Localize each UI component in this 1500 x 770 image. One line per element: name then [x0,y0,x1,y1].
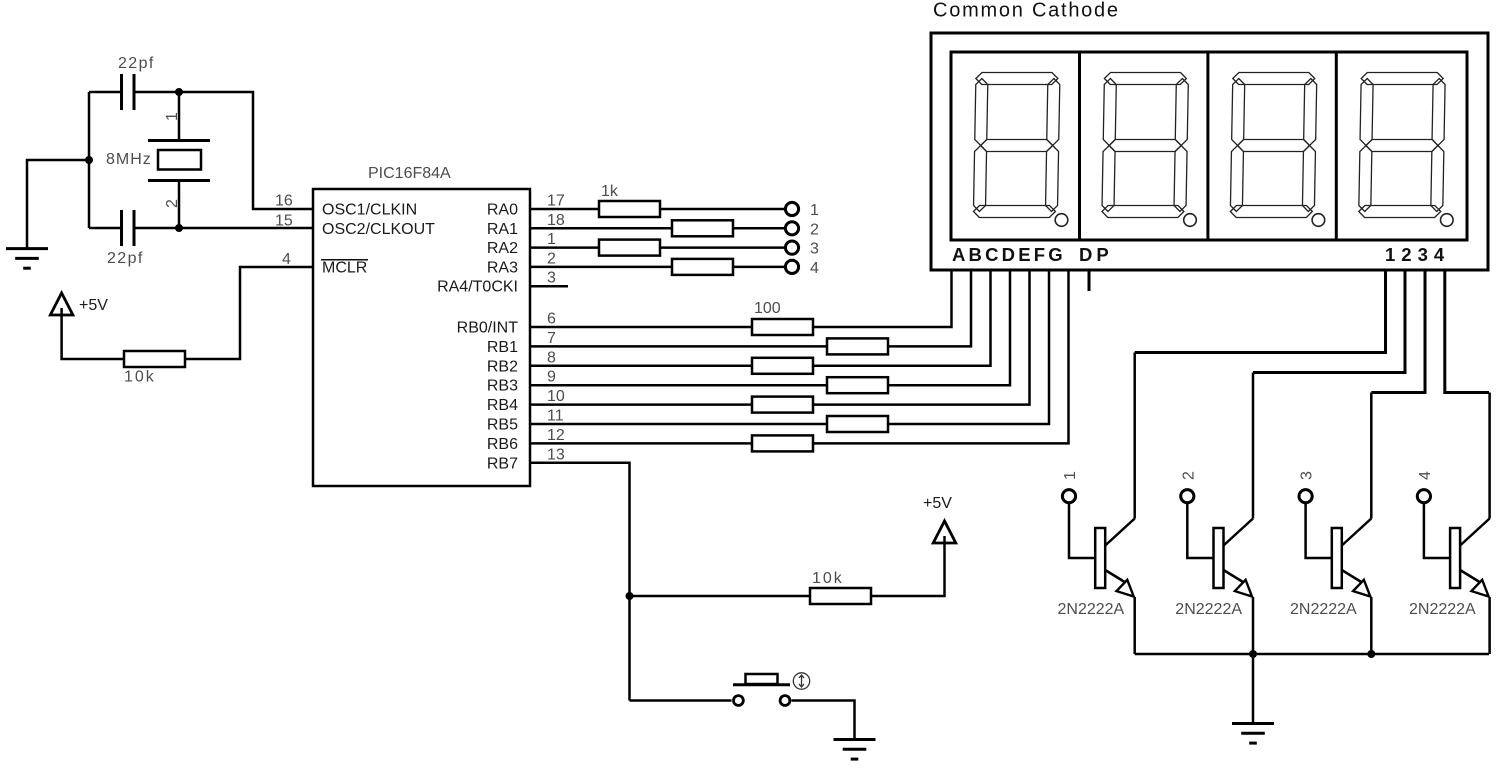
wire resistor RA2 to terminal [660,246,786,249]
svg-text:3: 3 [1299,471,1316,480]
svg-text:2N2222A: 2N2222A [1290,601,1357,618]
svg-text:10k: 10k [812,570,844,587]
wire emitter Q1 [1133,597,1136,654]
wire resistor RA1 to terminal [733,227,786,230]
wire rail to ground [1252,654,1255,722]
terminal 1 RA0 [785,202,798,215]
junction rail Q2 [1249,650,1257,658]
svg-text:7: 7 [547,330,556,347]
terminal 1 base input [1062,490,1075,503]
push button actuator icon [793,673,809,689]
wire display pin 2 to Q2 collector [1253,270,1405,373]
wire emitter Q4 [1488,597,1491,654]
svg-text:RA3: RA3 [487,259,518,276]
transistor Q2 2N2222A [1214,519,1254,597]
capacitor C2 22pf bottom [122,210,135,246]
resistor 100 RB2 [752,358,813,374]
display digit separator 3 [1335,52,1338,240]
svg-text:13: 13 [547,446,565,463]
wire R-mclr to PIC MCLR pin4 [185,267,313,359]
decimal point digit 4 [1441,214,1454,227]
wire resistor RA3 to terminal [733,266,786,269]
svg-text:+5V: +5V [923,495,952,512]
wire base Q2 [1187,503,1213,558]
resistor 10k RB7 pull-up [810,588,871,604]
svg-text:PIC16F84A: PIC16F84A [368,165,451,182]
svg-text:4: 4 [810,260,819,277]
display inner window [951,52,1467,240]
resistor 1k RA3 [672,259,733,275]
junction RB7 node [626,592,634,600]
wire display pin 4 to Q4 collector [1445,270,1489,393]
svg-text:RA0: RA0 [487,202,518,219]
display pin DP stub [1088,270,1091,291]
wire RB1 to resistor [530,345,827,348]
wire resistor RB6 to display pin G [813,270,1069,443]
decimal point digit 3 [1312,214,1325,227]
svg-text:RB1: RB1 [487,339,518,356]
svg-text:1234: 1234 [1385,244,1450,265]
7-segment digit 4 [1359,73,1446,218]
wire RB5 to resistor [530,423,827,426]
wire emitter Q3 [1370,597,1373,654]
svg-text:RB6: RB6 [487,436,518,453]
wire RB0 to resistor [530,326,752,329]
svg-text:RA2: RA2 [487,240,518,257]
push button switch S1 [733,674,790,705]
wire RA0 to resistor [530,208,599,211]
transistor Q1 2N2222A [1095,519,1135,597]
svg-text:3: 3 [810,241,819,258]
7-segment digit 1 [973,73,1060,218]
wire node to R 10k [630,595,811,598]
wire base Q4 [1424,503,1450,558]
wire +5V to R-mclr [62,308,124,359]
capacitor C1 22pf top [122,74,135,110]
svg-text:4: 4 [1417,471,1434,480]
wire resistor RB0 to display pin A [813,270,952,327]
svg-text:Common Cathode: Common Cathode [933,0,1120,22]
terminal 3 base input [1299,490,1312,503]
resistor 100 RB6 [752,435,813,451]
terminal 4 RA3 [785,260,798,273]
7-segment digit 3 [1230,73,1317,218]
wire C2 to node OSC2 [135,227,179,230]
resistor 100 RB3 [827,377,888,393]
svg-text:ABCDEFG: ABCDEFG [952,244,1066,265]
svg-text:DP: DP [1079,244,1113,265]
svg-text:2N2222A: 2N2222A [1175,601,1242,618]
ground button [834,740,876,760]
+5V supply right [933,521,956,543]
svg-text:RB3: RB3 [487,378,518,395]
wire RB7 down [530,463,630,701]
wire RA3 to resistor [530,266,672,269]
transistor Q3 2N2222A [1332,519,1372,597]
svg-text:RB5: RB5 [487,417,518,434]
wire emitter rail [1135,653,1489,656]
wire collector Q4 [1488,393,1491,519]
decimal point digit 1 [1055,214,1068,227]
svg-text:15: 15 [275,212,293,229]
svg-text:22pf: 22pf [118,55,155,72]
svg-text:MCLR: MCLR [322,259,367,276]
wire display pin 3 to Q3 collector [1371,270,1425,393]
wire RB3 to resistor [530,384,827,387]
svg-text:8: 8 [547,349,556,366]
display module outer body [931,33,1488,270]
svg-text:11: 11 [547,408,564,425]
ground transistors [1232,724,1274,744]
wire node to switch [630,699,732,702]
junction node OSC2 bottom [175,224,183,232]
IC U1 PIC16F84A body [313,189,530,486]
resistor 100 RB0 [752,319,813,335]
svg-text:8MHz: 8MHz [106,151,152,168]
wire resistor RB4 to display pin E [813,270,1030,405]
svg-text:10: 10 [547,388,565,405]
wire RB4 to resistor [530,403,752,406]
transistor Q4 2N2222A [1450,519,1490,597]
svg-text:10k: 10k [124,369,156,386]
terminal 4 base input [1417,490,1430,503]
svg-text:22pf: 22pf [107,250,144,267]
resistor 100 RB1 [827,338,888,354]
svg-text:17: 17 [547,193,565,210]
junction node OSC1 top [175,88,183,96]
svg-text:16: 16 [275,193,293,210]
svg-text:2: 2 [1180,471,1197,480]
svg-text:OSC1/CLKIN: OSC1/CLKIN [322,202,417,219]
wire RA1 to resistor [530,227,672,230]
decimal point digit 2 [1184,214,1197,227]
svg-text:4: 4 [282,251,291,268]
wire node OSC1 to PIC pin16 [179,92,313,209]
svg-text:18: 18 [547,212,565,229]
svg-text:2: 2 [547,250,556,267]
svg-text:RB0/INT: RB0/INT [457,320,519,337]
wire RA4/T0CKI stub [530,285,568,288]
wire left to C2 [89,227,120,230]
wire display pin 1 to Q1 collector [1135,270,1386,353]
wire left vertical C1-C2 [88,92,91,228]
wire top-left to C1 [89,91,120,94]
wire crystal pin2 [178,181,181,228]
7-segment digit 2 [1102,73,1189,218]
svg-text:2N2222A: 2N2222A [1409,601,1476,618]
svg-text:RB4: RB4 [487,397,518,414]
resistor 1k RA2 [599,240,660,256]
svg-text:3: 3 [547,270,556,287]
wire collector Q1 [1133,353,1136,519]
svg-text:1: 1 [547,231,556,248]
display digit separator 1 [1078,52,1081,240]
ground left [6,249,48,269]
resistor 1k RA1 [672,220,733,236]
wire to ground left [27,160,90,248]
svg-text:12: 12 [547,427,565,444]
svg-text:RA1: RA1 [487,221,518,238]
wire RB2 to resistor [530,365,752,368]
terminal 2 RA1 [785,222,798,235]
wire RA2 to resistor [530,246,599,249]
svg-text:100: 100 [754,300,781,317]
svg-text:RB2: RB2 [487,358,518,375]
wire switch to ground [792,701,855,739]
wire emitter Q2 [1252,597,1255,654]
svg-text:RB7: RB7 [487,455,518,472]
resistor 10k MCLR pull-up [124,351,185,367]
+5V supply left [50,293,73,315]
display digit separator 2 [1206,52,1209,240]
svg-text:RA4/T0CKI: RA4/T0CKI [437,279,518,296]
resistor 100 RB5 [827,416,888,432]
svg-text:9: 9 [547,369,556,386]
wire RB6 to resistor [530,442,752,445]
wire collector Q3 [1370,393,1373,519]
svg-text:1: 1 [810,202,819,219]
wire resistor RB1 to display pin B [888,270,971,346]
wire crystal pin1 [178,92,181,139]
svg-text:2: 2 [810,221,819,238]
svg-text:OSC2/CLKOUT: OSC2/CLKOUT [322,221,435,238]
junction left rail to ground [85,156,93,164]
junction rail Q3 [1367,650,1375,658]
terminal 3 RA2 [785,241,798,254]
svg-text:1: 1 [1062,471,1079,480]
wire C1 to node OSC1 [135,91,179,94]
wire collector Q2 [1252,373,1255,519]
wire resistor RA0 to terminal [660,208,786,211]
wire node OSC2 to PIC pin15 [179,227,313,230]
terminal 2 base input [1181,490,1194,503]
wire resistor RB2 to display pin C [813,270,991,366]
svg-text:+5V: +5V [79,297,108,314]
wire resistor RB5 to display pin F [888,270,1049,424]
svg-text:1k: 1k [601,183,619,200]
wire base Q1 [1069,503,1095,558]
svg-text:2N2222A: 2N2222A [1058,601,1125,618]
svg-text:6: 6 [547,311,556,328]
resistor 1k RA0 [599,201,660,217]
resistor 100 RB4 [752,397,813,413]
crystal X1 8MHz [148,141,210,181]
wire R 10k to +5V [871,536,945,596]
wire base Q3 [1306,503,1332,558]
wire resistor RB3 to display pin D [888,270,1010,385]
